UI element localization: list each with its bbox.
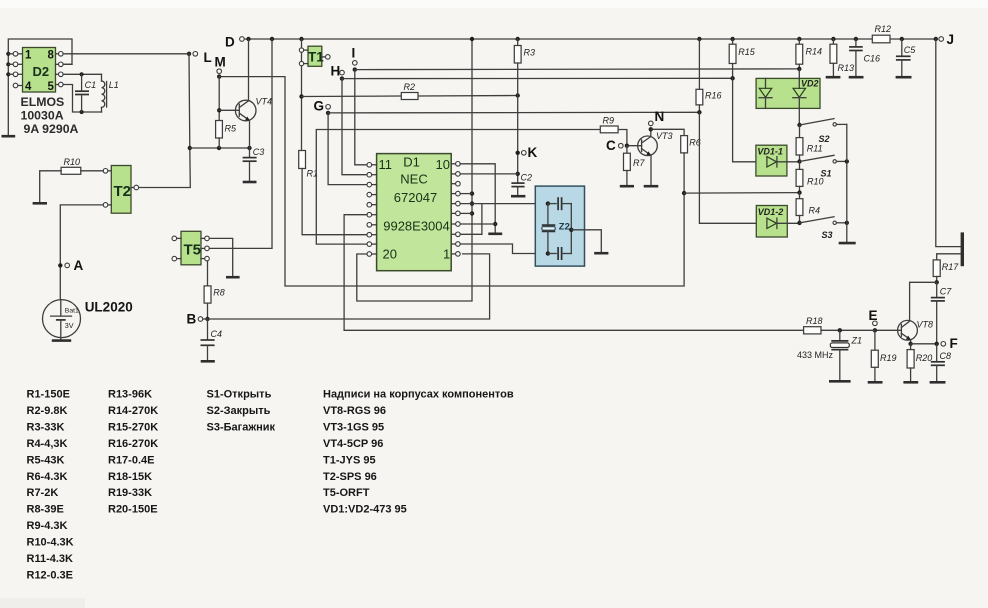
T1 pins: [299, 37, 330, 66]
svg-text:R6-4.3K: R6-4.3K: [27, 471, 68, 483]
wire pin6 to bus: [460, 212, 472, 214]
wire pin10 to ground: [460, 164, 497, 234]
svg-text:R11: R11: [807, 144, 823, 154]
svg-text:D1: D1: [403, 155, 420, 170]
node D: [225, 35, 251, 50]
chip T2: [111, 166, 131, 214]
svg-text:R2-9.8K: R2-9.8K: [27, 405, 68, 417]
svg-text:433 MHz: 433 MHz: [797, 350, 834, 360]
resistor R20: [907, 344, 932, 381]
svg-text:UL2020: UL2020: [85, 300, 133, 315]
Z2 top node: [546, 201, 550, 205]
T5 left pins: [172, 236, 181, 261]
ground R19: [868, 381, 883, 384]
svg-text:R11-4.3K: R11-4.3K: [27, 553, 74, 565]
svg-text:I: I: [352, 46, 356, 61]
svg-text:C2: C2: [521, 173, 533, 183]
ground C8: [930, 381, 946, 384]
svg-text:H: H: [331, 64, 341, 79]
svg-text:S3: S3: [822, 230, 833, 240]
svg-text:R12-0.3E: R12-0.3E: [27, 570, 73, 582]
svg-text:R13: R13: [838, 63, 855, 73]
svg-text:S2: S2: [819, 134, 830, 144]
svg-text:G: G: [314, 99, 325, 114]
chip T5: [181, 231, 201, 264]
ground C16: [849, 76, 864, 79]
ground R13: [826, 76, 841, 79]
ground switches: [839, 242, 856, 245]
resistor R4: [796, 193, 820, 223]
node C: [606, 138, 629, 153]
svg-text:VT8-RGS 96: VT8-RGS 96: [323, 405, 386, 417]
wire G riser to pin13: [328, 113, 367, 185]
resistor R9: [600, 116, 618, 133]
svg-text:R9: R9: [603, 116, 615, 126]
svg-text:R14-270K: R14-270K: [108, 405, 158, 417]
capacitor C8: [931, 344, 951, 381]
svg-text:R7-2K: R7-2K: [27, 487, 59, 499]
switch S3: [797, 217, 849, 240]
svg-text:D: D: [225, 35, 235, 50]
svg-text:R4-4,3K: R4-4,3K: [27, 438, 68, 450]
resistor R17: [933, 260, 959, 285]
D2 left pin circles: [13, 52, 18, 88]
node K: [516, 145, 538, 160]
T2 pins: [81, 169, 139, 208]
node J: [934, 32, 954, 47]
wire R6 junction to R10 bottom: [684, 192, 800, 195]
ground D2: [2, 135, 16, 138]
wire N to R6 top: [651, 129, 684, 135]
svg-text:20: 20: [383, 246, 397, 261]
wire node L riser to T2: [139, 54, 192, 188]
svg-text:M: M: [215, 55, 226, 70]
svg-text:T5-ORFT: T5-ORFT: [323, 487, 370, 499]
svg-text:R3: R3: [524, 48, 536, 58]
svg-text:R18-15K: R18-15K: [108, 471, 152, 483]
Z2 right bus and ground tap: [569, 204, 601, 254]
switch S1: [797, 155, 849, 178]
Z2 top capacitor: [548, 197, 571, 210]
wire R1 bottom to chip pin18: [302, 169, 367, 235]
svg-text:R9-4.3K: R9-4.3K: [27, 520, 68, 532]
capacitor C1: [75, 74, 96, 112]
resistor R15: [729, 37, 756, 81]
resistor R10: [796, 162, 823, 195]
wire L junction to R5 C3: [190, 146, 252, 150]
svg-text:VD1-2: VD1-2: [758, 207, 784, 217]
wire pin7 to ground net: [460, 223, 495, 225]
node dots on D2 left bus: [6, 52, 10, 77]
svg-text:L1: L1: [109, 80, 119, 90]
svg-text:C: C: [606, 138, 616, 153]
wire R15 bottom to VD1-1: [733, 78, 767, 162]
svg-text:672047: 672047: [394, 190, 437, 205]
svg-text:R19-33K: R19-33K: [108, 487, 152, 499]
transistor VT4: [219, 97, 272, 121]
ground R20: [903, 381, 918, 384]
svg-text:R12: R12: [875, 24, 892, 34]
resistor R1: [299, 151, 318, 179]
resistor R3: [514, 37, 535, 63]
svg-text:D2: D2: [33, 64, 50, 79]
svg-text:Z1: Z1: [851, 336, 863, 346]
svg-text:C1: C1: [85, 80, 97, 90]
resistor R12: [872, 24, 891, 43]
wire VT4 emitter: [249, 120, 251, 148]
quartz block Z2: [535, 186, 584, 266]
capacitor C7: [931, 282, 952, 344]
wire C7 top to VT8 collector: [910, 282, 937, 321]
svg-text:S1-Открыть: S1-Открыть: [207, 389, 272, 401]
resistor R19: [871, 330, 896, 381]
capacitor C2: [511, 173, 532, 196]
node A: [58, 258, 83, 273]
wire D2 pin5 to C1 L1 bottom rail: [63, 85, 101, 115]
capacitor C3: [243, 147, 265, 181]
wire J to antenna: [936, 39, 961, 247]
D1 left pin circles: [367, 163, 372, 257]
svg-text:F: F: [950, 336, 958, 351]
wire T5 top pin to ground: [209, 238, 232, 276]
svg-text:10030A: 10030A: [21, 109, 64, 123]
svg-text:J: J: [947, 32, 955, 47]
svg-text:B: B: [187, 312, 197, 327]
resistor R5: [216, 121, 237, 149]
wire pin4 to bus: [460, 193, 472, 195]
svg-text:R3-33K: R3-33K: [27, 421, 65, 433]
svg-text:R20-150E: R20-150E: [108, 504, 158, 516]
node N: [649, 109, 665, 136]
capacitor C16: [849, 37, 880, 76]
svg-text:R13-96K: R13-96K: [108, 389, 152, 401]
Z2 bottom capacitor: [546, 247, 572, 260]
chip D1: [377, 154, 452, 271]
svg-text:R18: R18: [806, 316, 823, 326]
wire VT3 emitter to ground: [650, 155, 652, 185]
svg-text:R20: R20: [916, 353, 933, 363]
chip D2: [23, 48, 56, 93]
node E: [869, 308, 878, 332]
text ELMOS 10030A 9A 9290A: [21, 95, 79, 136]
svg-text:1: 1: [443, 246, 450, 261]
D1 right pin stubs: [451, 164, 455, 254]
wire VT4 collector to rail: [248, 39, 250, 101]
svg-text:R5: R5: [225, 124, 237, 134]
svg-text:VT4: VT4: [256, 97, 273, 107]
wire top supply rail D: [244, 38, 936, 40]
svg-text:VD2: VD2: [801, 79, 819, 89]
svg-text:C8: C8: [940, 351, 952, 361]
ground C4: [201, 360, 215, 363]
wire B rail to chip pin1 riser: [203, 254, 490, 319]
svg-text:K: K: [528, 145, 538, 160]
wire R2 line: [302, 93, 520, 97]
capacitor C5: [896, 37, 916, 76]
wire T5 bottom pin to R8: [207, 261, 209, 286]
wire pin9 to Z2 bottom: [460, 244, 548, 254]
svg-text:8: 8: [48, 50, 55, 62]
resistor R7: [624, 146, 646, 185]
svg-text:R10: R10: [64, 157, 81, 167]
svg-text:C4: C4: [211, 329, 223, 339]
svg-text:9A 9290A: 9A 9290A: [24, 122, 79, 136]
ground pin10: [488, 233, 502, 236]
inductor L1: [102, 74, 119, 112]
resistor R18: [804, 316, 875, 334]
wire pin19 to R9: [316, 130, 600, 245]
D2 outer box wire: [8, 39, 72, 135]
svg-text:C3: C3: [253, 147, 265, 157]
svg-text:NEC: NEC: [400, 172, 427, 187]
resistor R13: [830, 37, 854, 76]
resistor R2: [401, 82, 418, 100]
resistor R10 left: [61, 157, 81, 174]
wire H riser to pin12: [342, 79, 367, 175]
ground R7: [620, 185, 634, 188]
text switch legend column3: [207, 389, 276, 434]
wire antenna to R17: [937, 254, 961, 260]
Z2 crystal: [542, 204, 556, 254]
optocoupler VD2: [756, 78, 820, 108]
wire R10 to ground: [40, 171, 61, 202]
svg-text:T2: T2: [114, 183, 132, 200]
resistor R11: [796, 125, 823, 162]
svg-text:R5-43K: R5-43K: [27, 454, 65, 466]
wire D2 pin8 to node L: [63, 53, 189, 55]
ground C3: [243, 181, 257, 184]
wire I to R14 bottom: [355, 68, 800, 71]
node G: [314, 99, 331, 116]
svg-text:VD1:VD2-473 95: VD1:VD2-473 95: [323, 504, 407, 516]
wire pin16 to R18 rail: [344, 215, 803, 331]
wire D2 pin to C1 L1 top rail: [63, 72, 101, 76]
ground T5: [226, 276, 240, 279]
svg-text:4: 4: [25, 81, 32, 93]
battery UL2020: [43, 300, 133, 340]
ground C5: [896, 76, 912, 79]
ground R10: [33, 202, 47, 205]
node L: [187, 50, 212, 65]
wire pin5 to Z2 top: [460, 203, 548, 205]
svg-text:VT3-1GS 95: VT3-1GS 95: [323, 421, 384, 433]
svg-text:C7: C7: [940, 287, 952, 297]
wire G to R16 bottom: [328, 111, 699, 114]
svg-text:T2-SPS 96: T2-SPS 96: [323, 471, 377, 483]
svg-text:R17-0.4E: R17-0.4E: [108, 454, 154, 466]
svg-text:VT8: VT8: [917, 320, 934, 330]
resistor R8: [204, 286, 225, 319]
svg-text:S2-Закрыть: S2-Закрыть: [207, 405, 271, 417]
wire T1 bus down through R1: [299, 66, 303, 151]
ground C2: [511, 195, 525, 198]
svg-text:R16: R16: [705, 91, 722, 101]
D2 right pin stubs and circles: [56, 52, 64, 87]
svg-text:R16-270K: R16-270K: [108, 438, 158, 450]
transistor VT8: [875, 320, 933, 341]
svg-text:R15: R15: [738, 47, 756, 57]
wire R3 to K to C2: [516, 63, 520, 183]
svg-text:R14: R14: [806, 47, 823, 57]
node I: [352, 46, 358, 72]
photodiode VD1-2: [756, 206, 799, 238]
wire M riser and base: [217, 77, 221, 121]
svg-text:C16: C16: [864, 54, 881, 64]
svg-text:R19: R19: [880, 353, 897, 363]
text component values column2: [108, 389, 158, 516]
svg-text:VD1-1: VD1-1: [757, 147, 783, 157]
svg-text:R17: R17: [942, 262, 960, 272]
chip T1: [308, 46, 324, 66]
svg-text:3V: 3V: [65, 321, 74, 330]
wire pin8 riser: [460, 204, 482, 235]
wire R9 to node C: [618, 130, 627, 146]
capacitor C4: [201, 319, 223, 360]
svg-text:Bat1: Bat1: [65, 308, 79, 315]
svg-text:T1-JYS 95: T1-JYS 95: [323, 454, 376, 466]
resistor R14: [796, 37, 822, 71]
svg-text:A: A: [74, 258, 84, 273]
wire D rail to T5 middle pin: [209, 37, 274, 249]
wire D2 left pin stubs: [8, 54, 22, 86]
resistor R16: [696, 37, 722, 115]
antenna element: [961, 232, 964, 266]
svg-text:R15-270K: R15-270K: [108, 421, 158, 433]
svg-text:R1-150E: R1-150E: [27, 389, 70, 401]
VD2 right diode: [793, 69, 806, 125]
wire pin20 power bus: [357, 37, 474, 301]
wire D2 pin2 to outer box: [63, 63, 72, 65]
svg-text:R8: R8: [213, 288, 225, 298]
ground Z1: [829, 380, 851, 383]
wire switch common to ground: [846, 124, 848, 242]
svg-text:C5: C5: [904, 45, 916, 55]
ground battery: [52, 339, 71, 342]
svg-text:T5: T5: [184, 242, 202, 259]
node F: [935, 336, 958, 351]
quartz Z1: [797, 328, 862, 380]
T5 right pins: [201, 236, 209, 261]
text component values column1: [27, 389, 74, 582]
text case markings column4: [323, 389, 514, 516]
resistor R6: [681, 136, 701, 196]
node H: [331, 64, 345, 81]
VD2 left diode: [759, 78, 772, 108]
wire VT8 emitter to F: [908, 340, 936, 346]
svg-text:R7: R7: [633, 158, 645, 168]
svg-text:R10-4.3K: R10-4.3K: [27, 537, 74, 549]
svg-text:10: 10: [436, 157, 450, 172]
photodiode VD1-1: [756, 145, 800, 176]
ground VT3: [644, 185, 659, 188]
wire M long route to R6 bottom: [219, 77, 684, 286]
svg-text:5: 5: [48, 81, 55, 93]
svg-text:L: L: [204, 50, 212, 65]
svg-text:R8-39E: R8-39E: [27, 504, 64, 516]
svg-text:VT4-5CP 96: VT4-5CP 96: [323, 438, 383, 450]
node B: [187, 312, 210, 327]
svg-text:11: 11: [379, 157, 393, 172]
ground Z2: [594, 252, 608, 255]
transistor VT3: [627, 131, 673, 156]
D1 left pin stubs: [372, 165, 377, 254]
node M: [215, 55, 226, 79]
svg-text:R4: R4: [809, 205, 821, 215]
wire R16 bottom to VD1-2: [699, 112, 767, 223]
svg-text:Надписи на корпусах компоненто: Надписи на корпусах компонентов: [323, 389, 514, 401]
svg-text:ELMOS: ELMOS: [21, 95, 65, 109]
D1 right pin circles: [456, 162, 461, 257]
switch S2: [797, 119, 847, 144]
svg-text:R2: R2: [404, 82, 416, 92]
svg-text:Z2: Z2: [559, 222, 570, 233]
wire T2 lower pin to node A: [60, 205, 103, 300]
svg-text:1: 1: [25, 50, 32, 62]
svg-text:VT3: VT3: [656, 131, 673, 141]
wire pin2 to K bus: [460, 173, 518, 175]
wire I riser to pin11: [355, 70, 367, 165]
svg-text:9928E3004: 9928E3004: [383, 219, 450, 234]
wire H to R15 bottom: [342, 77, 733, 79]
svg-text:S3-Багажник: S3-Багажник: [207, 421, 276, 433]
svg-text:R10: R10: [807, 176, 824, 186]
svg-text:N: N: [655, 109, 665, 124]
